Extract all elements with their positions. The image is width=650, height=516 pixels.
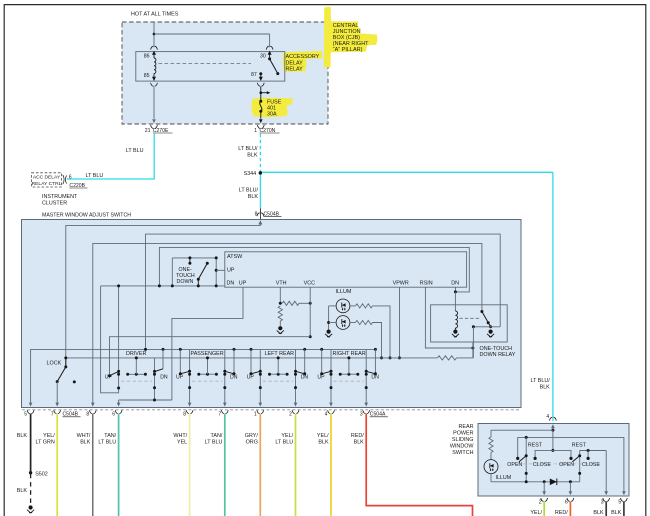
svg-text:1: 1 [254,128,257,134]
svg-text:REST: REST [572,443,587,449]
ATSW bottom pin labels DN UP VTH VCC VPWR RSIN DN [227,280,460,286]
svg-text:8: 8 [183,412,186,418]
svg-text:6: 6 [565,500,568,506]
wire one-touch to ATSW UP stub [215,269,225,272]
svg-text:DN: DN [230,375,238,381]
ground at relay coil [453,330,457,334]
wire battery feed inside master switch to lock [66,226,261,367]
illumination LED 2 [336,316,350,330]
svg-text:VTH: VTH [276,280,287,286]
wire supply to center contacts [534,430,573,460]
svg-text:OPEN: OPEN [559,462,574,468]
svg-text:87: 87 [251,72,257,78]
svg-text:6: 6 [112,412,115,418]
connector 1 C270N [254,125,279,134]
ground contact of relay switch [489,330,493,334]
power bus wire with relay resistor [64,342,473,360]
wire DN to one-touch relay node [454,287,457,293]
yellow highlight FUSE 401 30A [251,98,292,118]
node on VCC wire [309,302,312,305]
svg-text:8: 8 [255,211,258,217]
wire DN loop around ATSW [159,247,469,292]
wire YEL/LT GRN from master switch pin [36,414,58,516]
wire fuse to CJB bottom edge [260,111,262,119]
svg-text:TOUCH: TOUCH [176,273,195,279]
svg-text:OPEN: OPEN [507,462,522,468]
rear switch mech link dashes [517,463,601,465]
fuse 401 30A symbol [259,100,262,113]
wire YEL from rear switch pin 2 [530,501,544,516]
svg-text:MASTER WINDOW ADJUST SWITCH: MASTER WINDOW ADJUST SWITCH [42,212,131,218]
relay switch blade 30 to 87 (open) [270,59,278,74]
wire LT BLU/BLK right vertical to rear switch [552,172,554,421]
wire YEL/LT BLU from master switch pin [275,414,295,516]
svg-text:5: 5 [618,500,621,506]
svg-text:ACC DELAY: ACC DELAY [33,175,61,181]
wire RED/BLK from master switch to bottom right [351,414,473,516]
svg-text:RED/: RED/ [555,510,568,516]
label FUSE 401 30A [267,99,282,117]
svg-text:POWER: POWER [453,431,473,437]
label ONE-TOUCH DOWN [176,267,195,285]
wire LT BLU/BLK S344 down to master switch [259,173,261,208]
svg-text:“A” PILLAR): “A” PILLAR) [333,47,363,53]
relay pin 87 [251,72,264,86]
svg-text:ONE-TOUCH: ONE-TOUCH [480,346,513,352]
svg-text:LT BLU: LT BLU [205,440,223,446]
svg-text:4: 4 [325,412,328,418]
label CENTRAL JUNCTION BOX (CJB) (NEAR RIGHT A PILLAR) [333,23,369,53]
resistor LED1 to VPWR bus [350,304,392,360]
svg-text:RIGHT REAR: RIGHT REAR [333,351,366,357]
svg-text:5: 5 [24,412,27,418]
wire battery feed from top edge to junction [153,22,155,47]
ground at LED commons [327,330,331,334]
svg-text:BLK: BLK [318,440,329,446]
driver window switch group [105,284,172,406]
svg-text:86: 86 [144,54,150,60]
wire LT BLU to instrument cluster [67,178,155,180]
rear switch bottom connector pins [539,498,628,506]
central junction box (CJB) dashed boundary [122,22,328,124]
svg-text:YEL: YEL [177,440,187,446]
wire pin 87 to fuse [260,86,262,101]
svg-text:SLIDING: SLIDING [452,437,474,443]
connector 8 C504B [255,208,282,219]
svg-text:DN: DN [371,375,379,381]
svg-text:LT BLU: LT BLU [98,440,116,446]
splice node S344 [244,171,262,177]
svg-text:YEL/: YEL/ [281,433,293,439]
ATSW electronic module box [225,252,467,287]
svg-text:7: 7 [51,412,54,418]
svg-text:S344: S344 [244,171,257,177]
svg-text:SWITCH: SWITCH [452,450,473,456]
wire LT BLU C270E down [153,134,155,179]
svg-text:BLK: BLK [247,153,258,159]
relay pin 30 connector arcs and entry arrow [260,46,273,59]
svg-text:LEFT REAR: LEFT REAR [265,351,295,357]
svg-text:LOCK: LOCK [47,360,62,366]
wire close contact to pin 3 [604,451,608,496]
svg-text:CLOSE: CLOSE [533,462,551,468]
label INSTRUMENT CLUSTER [42,194,78,207]
labels REST OPEN CLOSE rear switch [507,443,600,468]
wire WHT/BLK from master switch pin [77,414,93,516]
wire pin 85 to CJB bottom edge [153,86,155,118]
svg-text:YEL/: YEL/ [43,433,55,439]
svg-text:TAN/: TAN/ [211,433,223,439]
node VTH divider [279,302,282,305]
wire YEL/BLK from master switch pin [317,414,331,516]
illumination lamp rear switch [484,460,498,474]
svg-text:RSIN: RSIN [420,280,433,286]
relay internal dashed link [159,63,252,65]
svg-text:LT BLU/: LT BLU/ [239,187,259,193]
svg-text:TAN/: TAN/ [104,433,116,439]
master window adjust switch box [22,220,522,408]
wire GRY/ORG from master switch pin [245,414,260,516]
svg-text:BLK: BLK [80,440,91,446]
svg-text:LT BLU: LT BLU [126,148,144,154]
yellow highlight CENTRAL JUNCTION BOX note [324,7,378,68]
svg-text:PASSENGER: PASSENGER [191,351,224,357]
svg-text:HOT AT ALL TIMES: HOT AT ALL TIMES [131,12,179,18]
wire TAN/LT BLU from master switch pin [98,414,118,516]
wire LT BLU/BLK dashed C270N to S344 [259,134,261,172]
connector row C504B C504A dashed line [22,409,521,411]
one-touch down relay box [431,305,508,342]
resistor VTH to VCC horizontal [282,301,310,305]
instrument cluster ACC DELAY RELAY CTRL box [32,173,62,187]
svg-text:LT BLU/: LT BLU/ [238,146,258,152]
wire VPWR to bus [398,287,401,359]
wire VCC down [309,287,311,337]
svg-text:BLK: BLK [593,510,604,516]
wire LT BLU/BLK S344 to right run [260,171,553,173]
wire down to relay pin 30 [269,34,271,47]
wire RSIN down and right [425,287,474,349]
svg-text:3: 3 [360,412,363,418]
yellow highlight ACCESSORY DELAY RELAY [283,51,323,72]
svg-text:CLOSE: CLOSE [582,462,600,468]
svg-text:LT BLU/: LT BLU/ [531,378,551,384]
rear power sliding window switch box [478,424,629,497]
node relay pin 30 [268,57,271,60]
relay coil 86-85 [154,58,156,74]
wire supply to illumination branch [491,429,553,431]
node junction of feed split [153,33,156,36]
svg-text:LT BLU: LT BLU [275,440,293,446]
svg-text:ORG: ORG [246,440,258,446]
svg-text:S502: S502 [35,471,48,477]
svg-text:REAR: REAR [459,424,474,430]
svg-text:DELAY: DELAY [286,60,304,66]
wire one-touch bottom bus [101,285,225,287]
wire pin2 drop [543,482,545,494]
svg-text:DOWN: DOWN [177,279,194,285]
one-touch down switch contacts and blade [188,256,208,287]
svg-text:6: 6 [69,174,72,180]
svg-text:8: 8 [86,412,89,418]
connector 21 C270E [145,125,173,134]
svg-text:VPWR: VPWR [393,280,409,286]
svg-text:DN: DN [301,375,309,381]
svg-text:3: 3 [601,500,604,506]
svg-text:VCC: VCC [304,280,315,286]
node supply junction rear switch [551,429,554,432]
wire TAN/LT BLU from master switch pin [205,414,225,516]
svg-text:85: 85 [144,73,150,79]
wire VTH to resistor divider [279,287,281,303]
svg-text:WHT/: WHT/ [77,433,91,439]
left rocker post and blade rear switch [519,437,528,483]
svg-text:DN: DN [227,280,235,286]
entry connector into rear switch [550,417,557,430]
svg-text:4: 4 [546,414,549,420]
svg-text:21: 21 [145,128,151,134]
svg-text:UP: UP [176,375,184,381]
lock switch [47,358,76,407]
svg-text:INSTRUMENT: INSTRUMENT [42,194,78,200]
illumination LED 1 [336,299,350,313]
svg-text:RELAY CTRL: RELAY CTRL [32,181,62,187]
wire illumination to diode rail [491,474,580,482]
relay pin 85 exit arrow through box [144,73,158,86]
svg-text:7: 7 [218,412,221,418]
wire RED from rear switch pin 6 [555,501,570,516]
wire relay output loop to ground bus [146,234,501,349]
relay pin 86 connector arcs and entry arrow [144,46,158,59]
svg-text:UP: UP [239,280,247,286]
node VCC junction [309,335,312,338]
resistor LED2 to VPWR bus [350,320,383,359]
svg-text:BLK: BLK [354,440,365,446]
svg-text:WHT/: WHT/ [173,433,187,439]
svg-text:REST: REST [528,443,543,449]
svg-text:ILLUM: ILLUM [496,475,512,481]
svg-text:GRY/: GRY/ [245,433,259,439]
svg-text:LT GRN: LT GRN [36,440,55,446]
ground bus wire [29,349,375,406]
svg-text:ONE-: ONE- [179,267,192,273]
wire relay coil drive loop to pin8 wire [93,243,482,405]
label LT BLU/BLK below S344 [239,187,259,199]
svg-text:BLK: BLK [611,510,622,516]
svg-text:DN: DN [160,375,168,381]
entry arrow 8 C504B into master switch [258,220,262,224]
svg-text:YEL/: YEL/ [317,433,329,439]
svg-text:UP: UP [317,375,325,381]
one-touch down switch wire rectangle [158,256,218,287]
wire ATSW UP output to driver down collector [172,287,243,400]
svg-text:ATSW: ATSW [227,254,243,260]
connector chevrons and pin numbers bottom of master switch [24,410,388,417]
LEFT REAR window switch group [247,348,309,407]
svg-text:LT BLU: LT BLU [86,173,104,179]
wire pin6 drop [569,482,571,494]
svg-text:DN: DN [451,280,459,286]
svg-text:30A: 30A [267,111,277,117]
svg-text:BLK: BLK [540,384,551,390]
wire LED left commons to ground [327,306,336,330]
svg-text:UP: UP [247,375,255,381]
svg-text:2: 2 [539,500,542,506]
label pin 6 and C220B [69,174,88,188]
label ONE-TOUCH DOWN RELAY [480,346,516,358]
svg-text:RED/: RED/ [351,433,364,439]
label ACCESSORY DELAY RELAY [286,54,320,72]
accessory delay relay box [136,52,285,82]
svg-text:BLK: BLK [17,488,28,494]
svg-text:30: 30 [260,54,266,60]
PASSENGER window switch group [176,348,238,407]
wire relay output to loops [472,325,500,358]
one-touch relay coil [455,292,457,330]
label LT BLU/BLK right side [531,378,551,391]
svg-text:ACCESSORY: ACCESSORY [286,54,320,60]
svg-text:RELAY: RELAY [286,67,304,73]
svg-text:1: 1 [254,412,257,418]
one-touch relay switch blade [480,310,492,328]
wire junction to pin 30 branch [154,33,270,35]
label REAR POWER SLIDING WINDOW SWITCH [450,424,475,456]
RIGHT REAR window switch group [317,348,379,407]
svg-text:UP: UP [105,375,113,381]
resistor VTH to ground vertical [278,306,282,326]
one-touch relay dashed link [460,317,480,319]
wire VCC net to driver up blade [110,337,311,376]
svg-text:WINDOW: WINDOW [450,444,475,450]
wire BLK from rear switch pin 3 [593,501,606,516]
svg-text:YEL/: YEL/ [530,510,542,516]
svg-text:ILLUM: ILLUM [336,289,352,295]
ground at VTH divider [278,326,282,330]
wire rest return to pin 5 [516,436,626,495]
wire BLK to splice S502 and ground [29,414,48,505]
svg-text:BLK: BLK [248,194,259,200]
label LT BLU/BLK above S344 [238,146,258,158]
svg-text:UP: UP [227,267,235,273]
svg-text:CLUSTER: CLUSTER [42,200,67,206]
svg-text:BLK: BLK [17,433,28,439]
diode in rear switch [543,479,572,486]
wire BLK from rear switch pin 5 [611,501,624,516]
svg-text:2: 2 [289,412,292,418]
connector halves at instrument cluster [63,175,67,184]
wire WHT/YEL from master switch pin [173,414,189,516]
wire one-touch bottom bus drop to driver up contact [101,286,119,393]
resistor illumination rear switch [489,430,493,459]
right rocker post and blade rear switch [572,449,606,482]
svg-text:DRIVER: DRIVER [126,351,146,357]
node tap with arrow to other circuits [259,91,270,94]
ground at S502 branch [29,505,33,509]
svg-text:DOWN RELAY: DOWN RELAY [480,352,516,358]
